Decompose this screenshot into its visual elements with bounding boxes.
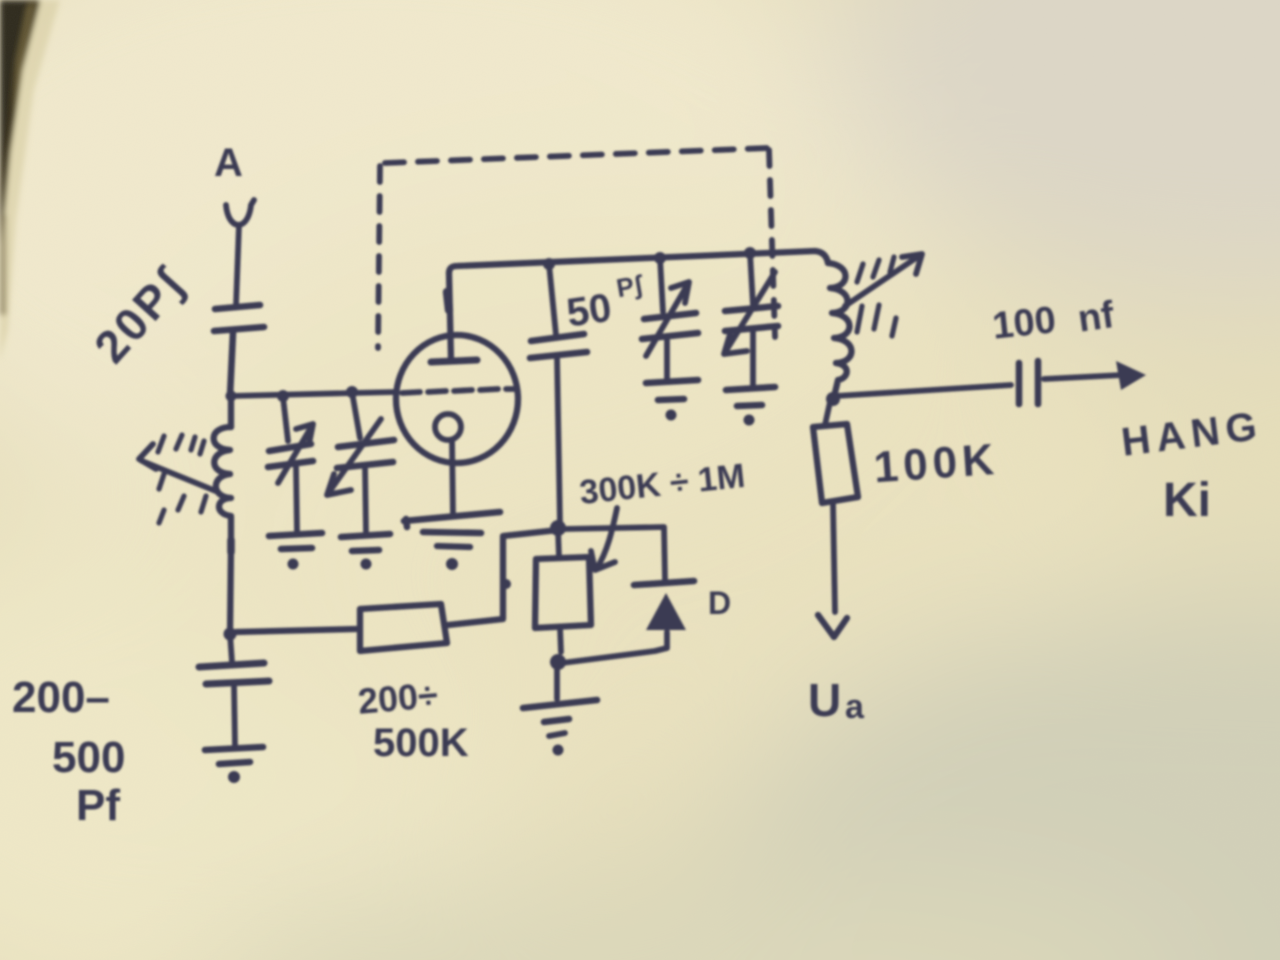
label 300K-1M with arrow (578, 457, 747, 570)
antenna A terminal (226, 200, 254, 306)
svg-text:500K: 500K (373, 721, 469, 765)
resistor 100K (813, 402, 858, 503)
capacitor 100nF (1019, 361, 1038, 404)
label HANG Ki (1119, 404, 1265, 527)
svg-text:100: 100 (990, 299, 1057, 347)
node 50pF/pot junction (550, 520, 566, 536)
variable capacitor C6 (724, 253, 778, 386)
svg-text:a: a (845, 688, 865, 726)
resistor 200-500K (360, 604, 447, 651)
svg-text:D: D (708, 585, 731, 621)
svg-text:Ki: Ki (1163, 474, 1211, 527)
node at L2 bottom (826, 392, 840, 406)
svg-text:200–: 200– (12, 673, 110, 722)
wire resistor to bottom node (224, 628, 357, 641)
inductor L2 (variable) (828, 263, 852, 397)
tube V1 grid (dashed) (402, 389, 516, 393)
svg-text:Pf: Pf (76, 781, 120, 830)
potentiometer 300K-1M (535, 530, 591, 652)
wire pot to diode bottom (562, 632, 667, 663)
wire anode to top rail (449, 247, 828, 273)
label D (708, 585, 731, 621)
ground below C2 (269, 533, 322, 570)
svg-text:200÷: 200÷ (356, 674, 439, 722)
label 100K (872, 435, 1000, 493)
ground below C3 (341, 534, 390, 570)
wire junction to diode top (564, 527, 665, 580)
tube V1 anode (431, 273, 477, 362)
L2 adjust arrow (845, 254, 922, 336)
variable capacitor C3 (327, 392, 394, 533)
variable capacitor C2 (268, 397, 313, 531)
variable capacitor C5 (642, 258, 698, 379)
inductor L1 (variable) (214, 427, 231, 552)
svg-text:500: 500 (52, 733, 125, 782)
ground below pot (523, 666, 597, 756)
svg-text:A: A (214, 141, 243, 185)
diode D (634, 581, 694, 630)
wire grid row (226, 386, 398, 402)
label 100nF (990, 294, 1117, 348)
ground below cathode (404, 512, 500, 570)
tube V1 cathode (435, 414, 461, 516)
tube V1 envelope (396, 335, 518, 463)
label 50pF (564, 269, 646, 336)
output arrow Ua (818, 504, 847, 637)
wire to coil L1 (228, 396, 234, 427)
ground below C5 (646, 380, 698, 421)
label 200-500K (356, 674, 468, 765)
label 20pF (84, 257, 196, 373)
svg-text:50: 50 (564, 286, 614, 336)
L1 adjust arrow (139, 435, 218, 523)
capacitor 50pF (530, 264, 587, 525)
label Ua (808, 674, 865, 726)
output arrow HANG Ki (1044, 361, 1146, 390)
ground below C6 (726, 387, 775, 426)
wire L2 to 100nF (836, 385, 1011, 396)
wire junction to left leg (448, 530, 558, 625)
node A label (214, 141, 243, 185)
ground below 200-500pF (205, 747, 263, 783)
table corner visible at top-left photo edge (0, 0, 60, 360)
svg-text:100K: 100K (872, 435, 1000, 493)
label 200-500pF (12, 673, 125, 830)
capacitor 200-500pF (199, 634, 269, 746)
svg-text:nf: nf (1075, 294, 1117, 341)
wire L1 to bottom node (230, 548, 231, 634)
svg-text:U: U (808, 674, 841, 726)
node pot bottom (550, 654, 566, 670)
dashed gang coupling box (378, 148, 775, 348)
capacitor 20pF (214, 305, 264, 396)
